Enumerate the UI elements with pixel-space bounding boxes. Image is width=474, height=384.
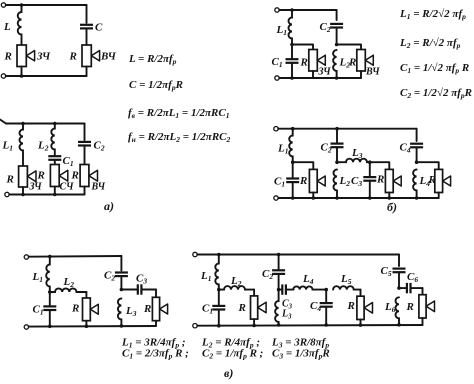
wire top corner to C2	[120, 256, 122, 271]
speaker horn LF	[27, 171, 36, 182]
junction node C	[324, 288, 328, 292]
inductor L1	[289, 129, 293, 163]
wire L2 branch bottom	[54, 187, 56, 195]
junction node A	[48, 290, 52, 294]
svg-text:L = R/2πfр: L = R/2πfр	[128, 53, 177, 66]
input terminal bottom	[275, 76, 279, 80]
input terminal bottom	[5, 192, 9, 196]
inductor L1	[215, 255, 218, 290]
speaker horn HF	[91, 51, 99, 61]
junction L2 top	[53, 122, 57, 126]
input terminal bottom	[193, 324, 197, 328]
capacitor C2	[78, 141, 91, 143]
junction L1 bottom	[21, 193, 25, 197]
junction C3 bottom	[368, 196, 372, 200]
junction L1 top	[48, 255, 52, 259]
junction node D	[415, 160, 419, 164]
inductor L4 shunt	[413, 170, 416, 199]
speaker horn HF	[160, 304, 168, 314]
inductor L2 series	[50, 288, 87, 292]
junction L3 bottom	[120, 324, 124, 328]
junction L1 top	[217, 253, 221, 257]
input terminal bottom	[24, 325, 28, 329]
wire R box bottom LF	[85, 321, 87, 327]
wire top bus	[279, 9, 336, 11]
junction R box bottom LF	[252, 324, 256, 328]
resistor-speaker box R (LF)	[309, 169, 317, 192]
wire R box bottom HF	[422, 318, 424, 325]
capacitor C1	[48, 155, 61, 157]
resistor-speaker box R (HF)	[152, 297, 159, 320]
speaker horn HF	[426, 301, 434, 312]
svg-text:R: R	[71, 303, 79, 315]
wire R box bottom HF	[155, 321, 157, 326]
wire input lead diagonal	[0, 120, 6, 124]
resistor-speaker box R (MF)	[385, 169, 393, 192]
inductor L4 series	[293, 286, 326, 289]
capacitor C	[80, 24, 93, 26]
junction R box bottom LF	[85, 324, 89, 328]
junction L2 bottom	[53, 193, 57, 197]
resistor-speaker box R (LF)	[309, 50, 318, 72]
wire top bus	[29, 255, 122, 258]
inductor L6 shunt	[396, 297, 399, 325]
input terminal top	[193, 252, 197, 256]
wire bottom bus	[6, 75, 87, 77]
speaker horn MF	[59, 170, 68, 181]
svg-text:R: R	[238, 302, 246, 314]
resistor-speaker box R (LF)	[17, 45, 26, 67]
wire node D to R box	[417, 162, 439, 169]
svg-text:ЗЧ: ЗЧ	[318, 67, 332, 78]
svg-text:R: R	[143, 303, 151, 315]
inductor L1	[46, 257, 50, 293]
inductor L2 shunt	[334, 170, 337, 199]
wire top bus	[6, 4, 87, 6]
svg-text:R: R	[348, 57, 356, 69]
wire C branch to bottom	[86, 67, 88, 77]
junction C1 bottom	[290, 76, 294, 80]
wire C3 to R box	[155, 290, 157, 298]
capacitor C1 shunt	[49, 292, 51, 306]
input terminal top	[1, 3, 5, 7]
junction node B	[335, 43, 339, 47]
junction R box bottom LF	[312, 196, 316, 200]
resistor-speaker box R (HF)	[82, 45, 91, 67]
svg-text:ВЧ: ВЧ	[365, 67, 380, 78]
svg-text:R: R	[376, 174, 384, 186]
wire top corner to C2	[84, 124, 86, 141]
wire L2 to R box	[253, 290, 255, 296]
wire top bus	[197, 254, 399, 256]
junction C1 bottom	[217, 324, 221, 328]
junction C1 bottom	[48, 325, 52, 329]
capacitor C2	[278, 255, 280, 271]
inductor L5 series	[333, 286, 360, 289]
wire bottom bus	[278, 197, 439, 199]
svg-text:R: R	[4, 51, 12, 63]
wire R box bottom MF	[360, 320, 362, 326]
capacitor C1	[291, 45, 293, 60]
svg-text:СЧ: СЧ	[60, 182, 75, 193]
junction R box bottom MF	[359, 323, 363, 327]
junction node C	[368, 160, 372, 164]
capacitor C6 series	[399, 287, 407, 289]
wire top bus	[6, 123, 85, 125]
svg-text:R: R	[69, 51, 77, 63]
wire bottom bus	[279, 77, 361, 79]
junction C4 bottom	[324, 323, 328, 327]
wire R box bottom LF	[312, 193, 314, 199]
junction top of L branch	[20, 3, 24, 7]
inductor L3 shunt	[275, 290, 278, 325]
svg-text:C = 1/2πfрR: C = 1/2πfрR	[129, 79, 183, 92]
svg-text:C1 = 1/√2 πfр R: C1 = 1/√2 πfр R	[400, 62, 469, 75]
wire R box bottom LF	[253, 319, 255, 325]
wire L5 to R box	[360, 290, 362, 297]
speaker horn HF	[443, 176, 451, 186]
resistor-speaker box R (MF)	[357, 296, 364, 319]
junction node B	[277, 288, 281, 292]
junction L4 bottom	[415, 196, 419, 200]
junction L1 top	[21, 122, 25, 126]
input terminal top	[274, 127, 278, 131]
inductor L1	[20, 124, 24, 167]
svg-text:а): а)	[104, 199, 114, 213]
resistor-speaker box R (HF)	[435, 169, 443, 192]
wire R box bottom LF	[312, 71, 314, 78]
resistor-speaker box R (LF)	[19, 166, 28, 187]
wire top corner to C2	[336, 10, 338, 20]
capacitor C1	[292, 162, 294, 178]
inductor L3 shunt	[118, 299, 122, 326]
capacitor C1 shunt	[218, 290, 220, 306]
wire L1 branch bottom	[22, 187, 24, 195]
wire L branch to bottom	[21, 67, 23, 77]
wire node A to R box	[292, 45, 313, 50]
inductor L2 shunt	[333, 50, 337, 78]
junction L3 bottom	[277, 323, 281, 327]
junction node A	[217, 288, 221, 292]
wire R box bottom HF	[360, 71, 362, 78]
wire R box bottom HF	[438, 193, 440, 199]
svg-text:fн = R/2πL2 = 1/2πRC2: fн = R/2πL2 = 1/2πRC2	[128, 131, 231, 144]
junction bottom of L branch	[20, 74, 24, 78]
wire top bus	[278, 128, 416, 130]
svg-text:C: C	[95, 22, 103, 34]
wire bottom bus	[29, 325, 156, 328]
inductor L3 series	[337, 159, 370, 163]
inductor L2 series	[219, 286, 254, 290]
svg-text:R: R	[300, 57, 308, 69]
capacitor C2	[330, 23, 343, 25]
resistor-speaker box R (LF)	[83, 298, 91, 321]
junction node A	[290, 43, 294, 47]
capacitor C2	[336, 129, 338, 144]
junction C1 bottom	[291, 196, 295, 200]
inductor L	[18, 5, 22, 45]
svg-text:L: L	[3, 21, 11, 33]
wire bottom bus	[197, 324, 422, 327]
junction L2 bottom	[335, 76, 339, 80]
resistor-speaker box R (MF)	[50, 165, 59, 187]
svg-text:R: R	[428, 174, 436, 186]
speaker horn LF	[317, 176, 325, 186]
svg-text:R: R	[71, 170, 79, 182]
junction L1 top	[290, 8, 294, 12]
svg-text:R: R	[406, 301, 414, 313]
inductor L2	[51, 124, 54, 157]
junction node B	[120, 288, 124, 292]
capacitor C3 series	[121, 289, 137, 291]
svg-text:ВЧ: ВЧ	[100, 51, 117, 63]
svg-text:в): в)	[224, 366, 233, 380]
svg-text:ВЧ: ВЧ	[91, 182, 106, 193]
resistor-speaker box R (HF)	[419, 295, 426, 318]
wire L2 to R box	[85, 292, 87, 298]
junction node D	[397, 286, 401, 290]
wire top corner to C4	[416, 129, 418, 141]
wire top corner to capacitor C	[86, 5, 88, 23]
wire C6 to R box	[422, 288, 424, 295]
speaker horn HF	[89, 170, 98, 181]
capacitor C3 series	[279, 289, 283, 291]
wire node B to R box	[337, 45, 361, 50]
svg-text:ЗЧ: ЗЧ	[29, 182, 43, 193]
wire R box bottom MF	[388, 193, 390, 199]
inductor L1	[289, 10, 293, 45]
input terminal bottom	[1, 74, 5, 78]
junction C2 top	[335, 127, 339, 131]
capacitor C2	[115, 271, 128, 273]
junction L2 bottom	[335, 196, 339, 200]
speaker horn LF	[258, 302, 266, 313]
resistor-speaker box R (HF)	[80, 165, 89, 187]
capacitor C4	[410, 143, 423, 145]
wire C2 branch bottom	[84, 187, 86, 195]
wire node A to R box	[293, 162, 314, 169]
wire top corner to C5	[398, 255, 400, 267]
svg-text:R: R	[347, 300, 355, 312]
speaker horn HF	[365, 55, 373, 65]
speaker horn MF	[364, 303, 372, 314]
junction R box bottom MF	[388, 196, 392, 200]
junction node A	[291, 160, 295, 164]
input terminal top	[275, 8, 279, 12]
resistor-speaker box R (LF)	[251, 296, 258, 319]
junction L1 top	[291, 127, 295, 131]
svg-text:fв = R/2πL1 = 1/2πRC1: fв = R/2πL1 = 1/2πRC1	[128, 107, 229, 120]
input terminal bottom	[274, 196, 278, 200]
wire bottom bus	[9, 194, 84, 196]
speaker horn LF	[317, 55, 325, 65]
svg-text:R: R	[37, 170, 45, 182]
svg-text:R: R	[299, 175, 307, 187]
speaker horn LF	[90, 304, 98, 314]
resistor-speaker box R (HF)	[357, 50, 366, 72]
input terminal top	[24, 255, 28, 259]
svg-text:R: R	[6, 174, 14, 186]
svg-text:ЗЧ: ЗЧ	[36, 51, 51, 63]
capacitor C5	[393, 268, 406, 270]
speaker horn LF	[26, 51, 34, 61]
capacitor C4 shunt	[325, 290, 327, 304]
wire node C to R box	[370, 162, 390, 169]
capacitor C3 shunt	[369, 162, 371, 177]
svg-text:б): б)	[387, 200, 397, 214]
junction L6 bottom	[397, 323, 401, 327]
junction C2 top	[277, 253, 281, 257]
speaker horn MF	[393, 176, 401, 186]
junction node B	[335, 160, 339, 164]
